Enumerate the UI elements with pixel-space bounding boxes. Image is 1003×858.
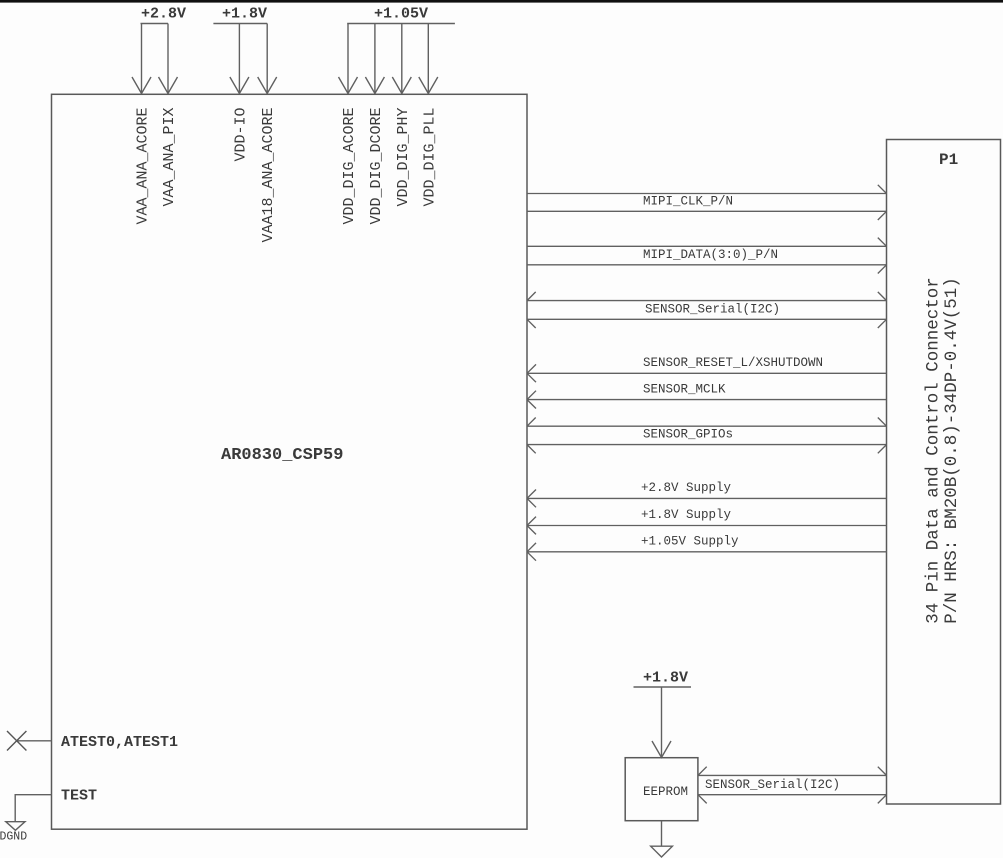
svg-text:ATEST0,ATEST1: ATEST0,ATEST1	[61, 734, 178, 751]
svg-text:SENSOR_RESET_L/XSHUTDOWN: SENSOR_RESET_L/XSHUTDOWN	[643, 356, 823, 370]
svg-text:34 Pin Data and Control Connec: 34 Pin Data and Control Connector	[924, 277, 944, 624]
bus MIPI_DATA(3:0)_P/N top line	[527, 238, 887, 247]
svg-text:MIPI_DATA(3:0)_P/N: MIPI_DATA(3:0)_P/N	[643, 248, 778, 262]
svg-text:SENSOR_Serial(I2C): SENSOR_Serial(I2C)	[705, 778, 840, 792]
ground at EEPROM	[651, 846, 673, 857]
wire +1.8V to pin VAA18_ANA_ACORE	[258, 24, 277, 94]
+1.8V power rail	[213, 23, 267, 25]
svg-text:+1.8V Supply: +1.8V Supply	[641, 508, 732, 522]
svg-text:VAA18_ANA_ACORE: VAA18_ANA_ACORE	[260, 108, 277, 243]
svg-text:SENSOR_MCLK: SENSOR_MCLK	[643, 382, 726, 396]
bus EEPROM SENSOR_Serial(I2C) bottom line	[698, 795, 887, 804]
wire TEST	[15, 795, 51, 822]
wire +1.8V Supply	[527, 517, 887, 535]
svg-text:VAA_ANA_PIX: VAA_ANA_PIX	[161, 108, 178, 207]
svg-text:P/N HRS: BM20B(0.8)-34DP-0.4V(: P/N HRS: BM20B(0.8)-34DP-0.4V(51)	[942, 277, 962, 624]
bus MIPI_CLK_P/N bottom line	[527, 211, 887, 220]
svg-text:AR0830_CSP59: AR0830_CSP59	[221, 446, 343, 465]
svg-text:P1: P1	[939, 151, 958, 169]
svg-text:EEPROM: EEPROM	[643, 785, 688, 799]
svg-text:TEST: TEST	[61, 788, 97, 805]
svg-text:MIPI_CLK_P/N: MIPI_CLK_P/N	[643, 194, 733, 208]
wire ATEST0,ATEST1	[17, 740, 52, 742]
wire SENSOR_MCLK	[527, 391, 887, 409]
+1.8V rail at EEPROM	[634, 686, 692, 688]
bus SENSOR_Serial(I2C) top line	[527, 292, 887, 301]
wire +1.8V to EEPROM	[652, 687, 671, 758]
svg-text:+1.05V: +1.05V	[374, 6, 428, 23]
+2.8V power rail	[141, 23, 169, 25]
wire +1.05V to pin VDD_DIG_DCORE	[365, 24, 384, 94]
wire +2.8V to pin VAA_ANA_ACORE	[132, 24, 151, 94]
bus MIPI_CLK_P/N top line	[527, 185, 887, 194]
svg-text:VDD_DIG_DCORE: VDD_DIG_DCORE	[368, 108, 385, 225]
wire +2.8V to pin VAA_ANA_PIX	[159, 24, 178, 94]
connector P1	[887, 140, 1001, 805]
svg-text:+2.8V Supply: +2.8V Supply	[641, 481, 732, 495]
bus MIPI_DATA(3:0)_P/N bottom line	[527, 265, 887, 274]
svg-text:VDD_DIG_PLL: VDD_DIG_PLL	[421, 108, 438, 207]
wire EEPROM to ground	[661, 821, 663, 846]
svg-text:SENSOR_Serial(I2C): SENSOR_Serial(I2C)	[645, 302, 780, 316]
wire +1.05V to pin VDD_DIG_PHY	[392, 24, 411, 94]
bus SENSOR_GPIOs top line	[527, 418, 887, 427]
svg-text:+1.8V: +1.8V	[643, 670, 688, 687]
svg-text:+2.8V: +2.8V	[141, 6, 186, 23]
EEPROM block	[625, 758, 698, 821]
svg-text:DGND: DGND	[0, 831, 27, 844]
wire SENSOR_RESET_L/XSHUTDOWN	[527, 364, 887, 382]
wire +1.8V to pin VDD-IO	[230, 24, 249, 94]
wire +1.05V to pin VDD_DIG_ACORE	[339, 24, 358, 94]
sensor block U1 AR0830_CSP59	[52, 94, 528, 829]
ground DGND	[6, 822, 25, 831]
svg-text:VDD_DIG_PHY: VDD_DIG_PHY	[395, 108, 412, 207]
wire +1.05V to pin VDD_DIG_PLL	[419, 24, 438, 94]
bus SENSOR_Serial(I2C) bottom line	[527, 319, 887, 328]
wire +1.05V Supply	[527, 543, 887, 561]
svg-text:SENSOR_GPIOs: SENSOR_GPIOs	[643, 428, 733, 442]
svg-text:+1.8V: +1.8V	[222, 6, 267, 23]
bus EEPROM SENSOR_Serial(I2C) top line	[698, 767, 887, 776]
+1.05V power rail	[347, 23, 455, 25]
svg-text:VDD_DIG_ACORE: VDD_DIG_ACORE	[341, 108, 358, 225]
svg-text:VAA_ANA_ACORE: VAA_ANA_ACORE	[135, 108, 152, 225]
svg-text:+1.05V Supply: +1.05V Supply	[641, 534, 739, 548]
svg-text:VDD-IO: VDD-IO	[232, 108, 249, 162]
bus SENSOR_GPIOs bottom line	[527, 445, 887, 454]
no-connect X on ATEST0,ATEST1	[7, 731, 26, 751]
wire +2.8V Supply	[527, 490, 887, 508]
